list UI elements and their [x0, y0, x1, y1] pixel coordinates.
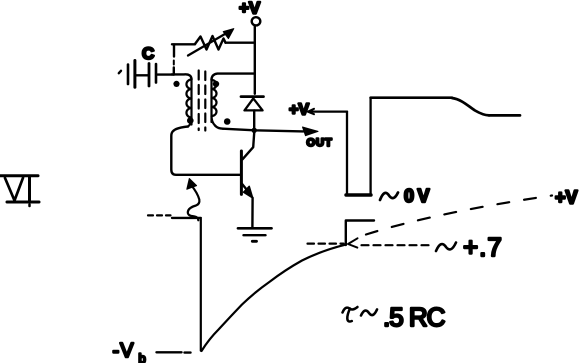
phase dot top-left	[173, 81, 179, 87]
svg-text:b: b	[139, 351, 146, 363]
small left arrow at +V line	[308, 109, 314, 114]
wire +V rail down to diode	[254, 26, 256, 94]
svg-text:+V: +V	[239, 0, 261, 18]
wire base loop (winding bottom to base)	[171, 131, 241, 175]
phase dot bottom-left winding	[187, 117, 194, 124]
diode D	[241, 97, 264, 111]
svg-text:+.7: +.7	[463, 232, 503, 262]
capacitor C	[119, 61, 156, 88]
wire cap to junction	[158, 73, 175, 75]
svg-text:C: C	[142, 44, 154, 63]
annotation arrow (squiggle to base wire)	[187, 179, 200, 221]
node base waveform leader dashes	[148, 214, 171, 216]
svg-text:.5 RC: .5 RC	[383, 302, 445, 332]
svg-text:0V: 0V	[404, 186, 433, 206]
waveform collector 0V segment	[346, 193, 371, 196]
waveform collector rise	[369, 98, 371, 195]
tilde before +.7	[436, 243, 456, 252]
transistor Q base bar	[240, 151, 243, 194]
resistor R (variable, arrow)	[172, 29, 255, 56]
wire winding bottom to OUT node	[223, 129, 304, 132]
phase dot bottom-right	[224, 118, 231, 125]
node junction collector/OUT	[252, 128, 257, 133]
node junction cap/resistor/transformer	[173, 45, 176, 75]
waveform base step at turn-on	[346, 221, 374, 246]
label tau	[343, 307, 358, 322]
transistor Q collector lead	[243, 131, 255, 159]
waveform -Vb level line	[157, 351, 191, 354]
dashed 0.7V level left	[308, 243, 344, 245]
tilde after tau	[361, 310, 377, 316]
label VI	[0, 176, 39, 206]
wire diode anode to collector node	[253, 111, 255, 132]
waveform base exponential recovery	[202, 245, 346, 351]
svg-text:OUT: OUT	[307, 137, 333, 149]
waveform base drop	[200, 219, 202, 351]
transformer core	[199, 71, 206, 131]
phase dot top-right winding	[213, 81, 219, 87]
waveform collector top segment	[371, 96, 452, 99]
+V supply terminal	[252, 17, 261, 25]
wire base level	[172, 217, 201, 219]
svg-text:+V: +V	[555, 188, 578, 208]
waveform collector +V segment	[310, 110, 347, 112]
waveform collector sag curve	[452, 98, 489, 115]
svg-text:-V: -V	[113, 340, 135, 362]
ground	[238, 228, 272, 241]
dashed 0.7V level right	[362, 244, 434, 246]
transformer T left winding	[172, 74, 192, 130]
arrowhead at step crossing	[348, 238, 358, 247]
transformer T right winding	[212, 74, 255, 129]
waveform collector drop	[346, 112, 348, 195]
tilde before 0V	[380, 193, 398, 201]
svg-text:+V: +V	[289, 102, 309, 119]
label -Vb	[113, 340, 146, 363]
waveform collector settled segment	[489, 114, 520, 117]
transistor Q emitter lead	[242, 183, 253, 227]
OUT arrowhead	[303, 127, 319, 136]
dashed rising asymptote to +V	[366, 196, 552, 235]
